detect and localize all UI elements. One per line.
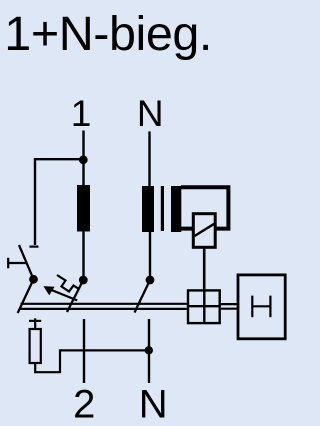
svg-text:N: N: [139, 383, 168, 426]
svg-text:N: N: [137, 93, 164, 134]
svg-text:1: 1: [71, 93, 92, 134]
svg-text:1+N-bieg.: 1+N-bieg.: [4, 7, 212, 61]
svg-text:2: 2: [73, 383, 95, 426]
